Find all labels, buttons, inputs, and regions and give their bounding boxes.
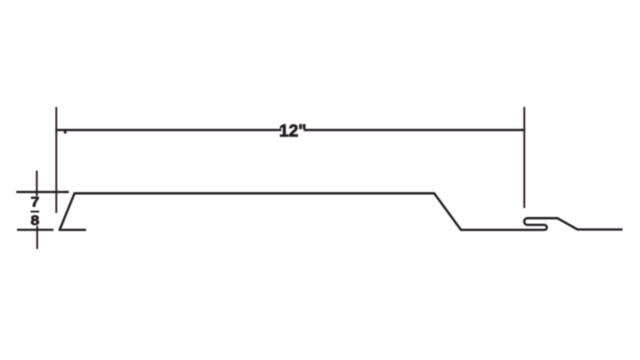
tick dot on dimension line	[64, 131, 67, 134]
extension line left (12 inch dimension)	[55, 107, 57, 213]
panel profile outline	[60, 193, 623, 230]
7/8 extension tick above	[36, 171, 38, 197]
svg-text:7: 7	[31, 195, 40, 210]
7/8 dimension top line	[16, 191, 69, 193]
extension line right (12 inch dimension)	[523, 107, 525, 208]
7/8 extension tick below	[36, 226, 38, 249]
fraction bar	[31, 211, 40, 213]
7/8 dimension bottom line	[17, 229, 54, 231]
svg-text:8: 8	[31, 214, 40, 229]
svg-text:12": 12"	[279, 120, 306, 140]
dimension line 12 inch, right segment	[304, 129, 526, 131]
dimension line 12 inch, left segment	[55, 129, 281, 131]
